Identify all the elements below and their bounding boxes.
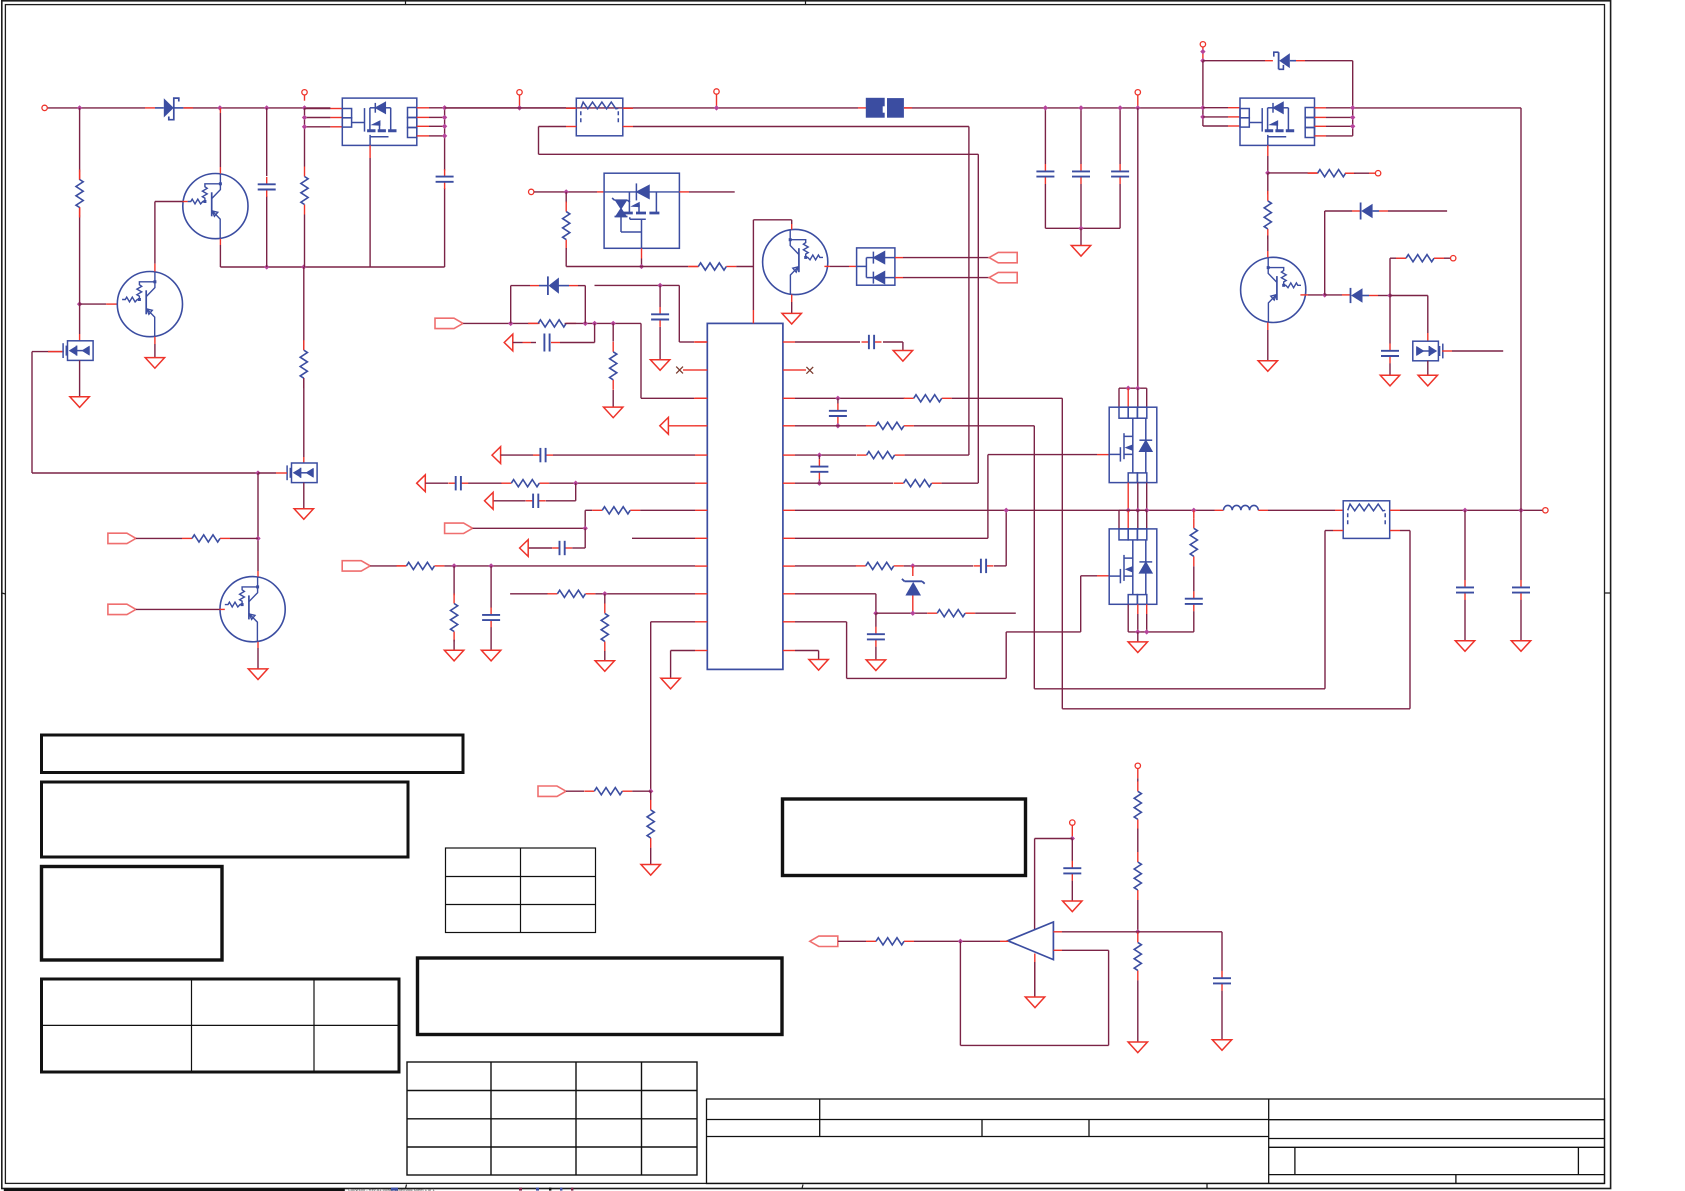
junction U2 bus2	[442, 115, 447, 120]
wire U5 right pins to bus	[1315, 107, 1327, 109]
junction U2 bus4	[442, 133, 447, 138]
terminal J9	[1451, 256, 1456, 261]
wire J6 to U3	[534, 191, 566, 193]
resistor R15	[584, 788, 632, 795]
junction port IN1 / node	[255, 536, 260, 541]
capacitor C12 to ground	[490, 566, 492, 608]
output filter FL2	[1343, 501, 1390, 539]
wire D4 to right bus	[1305, 60, 1353, 62]
ground C19	[1455, 641, 1474, 652]
junction SW a	[1126, 508, 1131, 513]
wire U2 bottom pin down	[369, 145, 371, 158]
wire to IC pin3	[640, 323, 642, 398]
capacitor C16	[974, 559, 994, 573]
wire cap bus to ground	[1080, 228, 1082, 245]
capacitor C1	[266, 108, 268, 176]
transistor Q2	[117, 272, 182, 337]
capacitor C14	[837, 398, 839, 403]
resistor R26	[1396, 255, 1444, 262]
ground Q9 source	[1128, 642, 1147, 653]
net arrow C11	[520, 540, 529, 557]
wire right pin5 row	[795, 454, 856, 456]
resistor R1	[76, 170, 83, 218]
junction gate bus / Q7 gate	[255, 470, 260, 475]
resistor R16 to ground	[650, 791, 652, 800]
junction bus pin2	[302, 115, 307, 120]
resistor R3	[303, 267, 305, 350]
junction C15 top	[817, 452, 822, 457]
junction Q9 src a	[1135, 629, 1140, 634]
wire opamp ground	[1034, 954, 1036, 998]
junction U5 bus2	[1200, 114, 1205, 119]
resistor R29	[1134, 932, 1141, 980]
inductor L1	[1224, 505, 1259, 510]
transistor Q4	[763, 229, 828, 294]
wire base node up to D5	[1324, 211, 1326, 295]
junction VOUT/C20	[1518, 508, 1523, 513]
notes table 4	[42, 979, 400, 1072]
wire D6 node up to R26	[1389, 258, 1391, 295]
ground cap bus	[1071, 246, 1090, 257]
resistor R17	[904, 395, 952, 402]
port FB	[342, 561, 370, 571]
wire Q2 base row	[80, 303, 107, 305]
resistor R10	[592, 507, 640, 514]
ground C7	[650, 360, 669, 371]
fuse F1	[866, 98, 904, 118]
wire rail caps top right	[1044, 108, 1046, 164]
footer black bar	[4, 1188, 345, 1191]
wire Q9 source bus to ground	[1128, 631, 1194, 633]
wire U3 bottom pin to node row y=266.5	[641, 248, 643, 258]
junction row613 left	[873, 611, 878, 616]
power MOSFET Q8 (high side)	[1109, 407, 1157, 482]
resistor R14 to ground	[604, 594, 606, 604]
capacitor C9	[448, 476, 468, 490]
junction VOUT/C19	[1462, 508, 1467, 513]
wire right pin1 row	[795, 341, 860, 343]
resistor R21	[856, 562, 904, 569]
port VS	[810, 936, 838, 946]
wire L1 to FL2	[1268, 509, 1335, 511]
junction Q9 src b	[1144, 629, 1149, 634]
capacitor C5	[1111, 164, 1129, 184]
junction D6 out	[1387, 293, 1392, 298]
U1 left pin stubs	[695, 341, 707, 343]
junction VIN/D2	[508, 321, 513, 326]
junction pin9/R12	[451, 563, 456, 568]
ground C13	[893, 351, 912, 362]
capacitor C13	[862, 335, 882, 349]
transistor Q1	[183, 174, 248, 239]
notes table 1	[42, 735, 464, 773]
junction R1 / Q2 base	[77, 301, 82, 306]
diode D5	[1360, 203, 1362, 220]
junction SW c	[1144, 508, 1149, 513]
wire left bus U5	[1202, 61, 1204, 126]
junction pin6/C10	[573, 481, 578, 486]
zener D3	[912, 566, 914, 576]
port OUT1	[989, 252, 1017, 262]
wire Q6 drain to ground	[79, 360, 81, 396]
wire Q4 base to diode pair U4	[824, 265, 830, 267]
wire zener D4 row	[1203, 60, 1265, 62]
wire Q9 top bracket	[1127, 510, 1129, 529]
junction U5 gate node	[1265, 170, 1270, 175]
MOSFET Q7	[287, 463, 317, 483]
capacitor C7	[659, 285, 661, 307]
junction Q5 base	[1322, 292, 1327, 297]
terminal J7	[1200, 42, 1205, 47]
resistor R7	[528, 320, 576, 327]
resistor R2	[301, 167, 308, 215]
wire FL1 row2 right long run	[623, 126, 633, 128]
wire FL2 output	[1390, 509, 1400, 511]
resistor R23 snubber	[1193, 510, 1195, 518]
wire Q2 emitter	[154, 337, 156, 344]
wire D6 node right to Q10	[1390, 295, 1428, 297]
wire SW rail y=510.3	[795, 509, 1006, 511]
wire U1 top pin	[752, 310, 754, 323]
resistor R22	[927, 610, 975, 617]
junction rail/C4	[1078, 105, 1083, 110]
resistor R18	[866, 422, 914, 429]
wire right pin10 row	[795, 593, 876, 595]
junction zener D3	[910, 563, 915, 568]
junction row267/R2	[301, 264, 306, 269]
wire R7 right to junctions	[565, 322, 586, 324]
terminal J5 above rail	[1137, 95, 1139, 108]
wire D2 loop	[510, 286, 512, 324]
junction U2 bus3	[442, 124, 447, 129]
wire divider chain	[1137, 769, 1139, 779]
ground C23	[1212, 1040, 1231, 1051]
junction top rail / C1 branch	[264, 105, 269, 110]
ground Q6	[70, 397, 89, 408]
terminal J11	[1070, 820, 1075, 825]
ground R16	[641, 865, 660, 876]
diode pair module U4	[857, 248, 895, 285]
resistor R27	[1134, 781, 1141, 829]
wire right pin8 row to gate	[795, 537, 988, 539]
terminal J6	[529, 189, 534, 194]
port CTRL	[445, 523, 473, 533]
junction rail/C3	[1043, 105, 1048, 110]
capacitor C18 snubber	[1185, 591, 1203, 611]
common-mode filter FL1	[576, 98, 623, 136]
terminal J3 above rail	[519, 95, 521, 108]
junction J6/R5	[564, 189, 569, 194]
terminal J4 above rail	[716, 94, 718, 108]
resistor R20	[894, 480, 942, 487]
no-connect U1 right pin2	[806, 367, 813, 374]
junction bus pin3	[302, 124, 307, 129]
capacitor C19	[1464, 510, 1466, 580]
wire pin5	[501, 454, 533, 456]
junction top rail / Q1 collector	[217, 105, 222, 110]
capacitor C3	[1036, 164, 1054, 184]
resistor R30	[866, 938, 914, 945]
wire pin7	[585, 509, 592, 511]
wire Q5 emitter ground	[1267, 323, 1269, 331]
wire Q1 base from Q2 collector	[155, 201, 183, 203]
junction J5	[1135, 105, 1140, 110]
junction FET top bracket b	[1135, 386, 1140, 391]
wire top pin bracket upper FET	[1119, 387, 1147, 389]
notes table 3	[42, 867, 223, 961]
wire right bus of U2 down to node row	[444, 108, 446, 171]
wire Q9 bottom pins	[1137, 604, 1139, 614]
junction pin10/R14	[602, 591, 607, 596]
wire lower long run y=154.3	[539, 153, 979, 155]
junction pin9/C12	[488, 563, 493, 568]
power MOSFET module U5	[1240, 98, 1315, 145]
wire pin8 left	[632, 537, 695, 539]
junction J4	[714, 105, 719, 110]
wire FL2 bottom right pin	[1390, 530, 1400, 532]
junction opamp supply	[1070, 836, 1075, 841]
ground R14	[595, 661, 614, 672]
capacitor C15	[818, 455, 820, 459]
wire net to IC pin1	[595, 284, 680, 286]
IC U1 controller	[707, 323, 783, 669]
capacitor C11	[552, 541, 572, 555]
notes table 6	[418, 958, 783, 1035]
net arrow pin5	[492, 447, 501, 464]
wire right pin12	[795, 650, 819, 652]
ground divider	[1128, 1042, 1147, 1053]
wire pin10 row	[510, 593, 548, 595]
wire right pin4 row	[795, 425, 866, 427]
wire U2 right pins to bus	[417, 107, 429, 109]
junction U5 bus1	[1200, 105, 1205, 110]
capacitor C6	[549, 334, 551, 352]
wire right pin11 row	[795, 621, 847, 623]
junction D2 right	[583, 321, 588, 326]
wire U5 gate pin down	[1267, 145, 1269, 156]
wire opamp + input row	[1053, 931, 1062, 933]
resistor R25	[1267, 173, 1269, 194]
junction CTRL node	[583, 526, 588, 531]
junction C6 branch	[592, 321, 597, 326]
transistor Q3	[220, 577, 285, 642]
net arrow AGND1	[504, 334, 513, 351]
wire top power rail	[45, 107, 145, 109]
wire top feedback rail to VOUT node	[1353, 107, 1521, 109]
junction C7 branch	[657, 283, 662, 288]
ground C22	[1063, 901, 1082, 912]
junction SW b	[1135, 508, 1140, 513]
terminal J10	[1135, 763, 1140, 768]
resistor R12 to ground	[453, 566, 455, 595]
wire node row y=266.5	[566, 266, 641, 268]
capacitor C20	[1520, 510, 1522, 580]
wire port IN2 to Q3 base	[136, 608, 220, 610]
resistor R9	[501, 480, 549, 487]
capacitor C21	[1389, 296, 1391, 344]
port IN1	[108, 533, 136, 543]
net arrow pin4	[660, 417, 669, 434]
wire pin12 left	[671, 650, 695, 652]
junction zener bottom	[910, 611, 915, 616]
wire U4 to port OUT2	[895, 277, 903, 279]
wire pin11	[651, 621, 695, 623]
port OUT2	[989, 272, 1017, 282]
diode D2	[539, 285, 548, 287]
wire right pin3 row	[795, 397, 905, 399]
wire port EN row	[566, 790, 584, 792]
junction C14 bottom	[835, 423, 840, 428]
ground C17	[866, 660, 885, 671]
op-amp U6	[1008, 922, 1054, 960]
U1 right pin stubs	[783, 341, 795, 343]
junction row267/C1	[264, 264, 269, 269]
ground pin12	[661, 678, 680, 689]
capacitor C22	[1071, 839, 1073, 861]
ground Q3 emitter	[248, 669, 267, 680]
ground pin12 right	[809, 660, 828, 671]
wire pin6	[425, 482, 448, 484]
capacitor C23	[1221, 932, 1223, 971]
wire left rail branch x=80	[79, 108, 81, 172]
power MOSFET Q9 (low side)	[1109, 529, 1157, 604]
wire pin9 row	[370, 565, 397, 567]
wire U3 drain out right (dangling)	[679, 191, 689, 193]
ground R12	[444, 650, 463, 661]
resistor R13	[547, 590, 595, 597]
wire Q8 source pins to SW rail	[1127, 483, 1129, 511]
ground Q5	[1258, 361, 1277, 372]
junction top rail / R1 branch	[77, 105, 82, 110]
resistor R24	[1308, 170, 1356, 177]
junction J3	[517, 105, 522, 110]
junction cap bus	[1078, 226, 1083, 231]
title block	[707, 1099, 1605, 1184]
terminal VOUT	[1543, 508, 1548, 513]
MOSFET Q6	[63, 341, 93, 361]
no-connect U1 left pin2	[676, 367, 683, 374]
ground C21	[1380, 375, 1399, 386]
wire C10 branch	[575, 483, 577, 501]
wire C6 branch	[594, 323, 596, 342]
capacitor C17 to ground	[875, 613, 877, 627]
notes table 7	[783, 799, 1026, 876]
wire right pin6 row	[795, 482, 893, 484]
footer fine print	[348, 1187, 435, 1191]
wire VS row	[838, 940, 866, 942]
wire R6 to Q4 collector	[736, 266, 753, 268]
junction J7 b	[1200, 58, 1205, 63]
notes table 2	[42, 782, 409, 857]
junction U3/row	[639, 264, 644, 269]
wire opamp supply	[1035, 838, 1073, 840]
wire Q7 source to ground	[303, 483, 305, 509]
junction divider mid	[1135, 929, 1140, 934]
wire Q5 base row	[1300, 294, 1308, 296]
wire MOSFET Q6 gate feed	[32, 351, 64, 353]
wire FL1 row2 left	[566, 126, 576, 128]
power MOSFET module U2	[342, 98, 417, 145]
net arrow C10	[485, 492, 494, 509]
parameter table 5	[446, 848, 596, 933]
junction U5 out2	[1350, 115, 1355, 120]
title block bottom strip divider	[1206, 1183, 1208, 1188]
port IN2	[108, 604, 136, 614]
wire U4 to port OUT1	[895, 257, 903, 259]
zener diode D4	[1278, 52, 1280, 69]
junction J7 a	[1200, 49, 1205, 54]
MOSFET Q10	[1413, 341, 1443, 361]
wire rail through FL1	[566, 107, 576, 109]
ground C20	[1511, 641, 1530, 652]
wire FL2 bottom left pin	[1333, 530, 1343, 532]
port EN	[538, 786, 566, 796]
wire Q10 source to ground	[1427, 361, 1429, 376]
ground Q2 emitter	[145, 358, 164, 369]
ground Q10	[1418, 375, 1437, 386]
terminal J2 above rail	[304, 95, 306, 101]
ground opamp	[1025, 997, 1044, 1008]
capacitor C4	[1072, 164, 1090, 184]
terminal J1	[42, 105, 47, 110]
junction rail/C5	[1117, 105, 1122, 110]
junction SW/R23	[1191, 508, 1196, 513]
junction pin11 node	[648, 789, 653, 794]
junction SW/C16 branch	[1004, 508, 1009, 513]
transistor Q5	[1241, 257, 1306, 322]
resistor R19	[857, 452, 905, 459]
wire row y=613	[876, 612, 927, 614]
revision table 8	[407, 1062, 697, 1175]
junction top rail / R2 bus	[302, 105, 307, 110]
wire feedback loop	[959, 941, 961, 1045]
junction U5 out3	[1350, 124, 1355, 129]
junction U2 bus1	[442, 105, 447, 110]
wire Q7 gate stub	[276, 472, 287, 474]
capacitor C8	[533, 448, 553, 462]
resistor R5	[565, 192, 567, 203]
junction FET top bracket a	[1126, 386, 1131, 391]
junction C15 bottom	[817, 481, 822, 486]
junction VS/feedback	[958, 939, 963, 944]
junction R8 branch	[611, 321, 616, 326]
ground R8	[604, 407, 623, 418]
wire Q1 collector to rail	[219, 113, 221, 167]
protection module U3 body	[604, 173, 679, 248]
wire Q4 emitter to ground	[791, 295, 793, 302]
wire right pin9 row	[795, 565, 856, 567]
net arrow pin6	[417, 475, 426, 492]
ground C12	[481, 650, 500, 661]
terminal J8	[1375, 171, 1380, 176]
wire port IN1 to node	[136, 537, 182, 539]
wire left bus of power MOSFET U2	[304, 108, 306, 167]
port VIN	[435, 318, 463, 328]
resistor R11	[396, 562, 444, 569]
junction U5 out1	[1350, 105, 1355, 110]
diode D6	[1325, 294, 1342, 296]
ground Q7	[294, 509, 313, 520]
wire Q3 emitter	[257, 642, 259, 648]
wire gate node to sense resistor	[1268, 172, 1310, 174]
resistor R28	[1134, 852, 1141, 900]
ground Q4 emitter	[782, 313, 801, 324]
wire Q10 gate out	[1442, 350, 1452, 352]
resistor R8	[612, 323, 614, 341]
junction C14 top	[835, 396, 840, 401]
resistor R4	[182, 535, 230, 542]
resistor R6	[688, 263, 736, 270]
